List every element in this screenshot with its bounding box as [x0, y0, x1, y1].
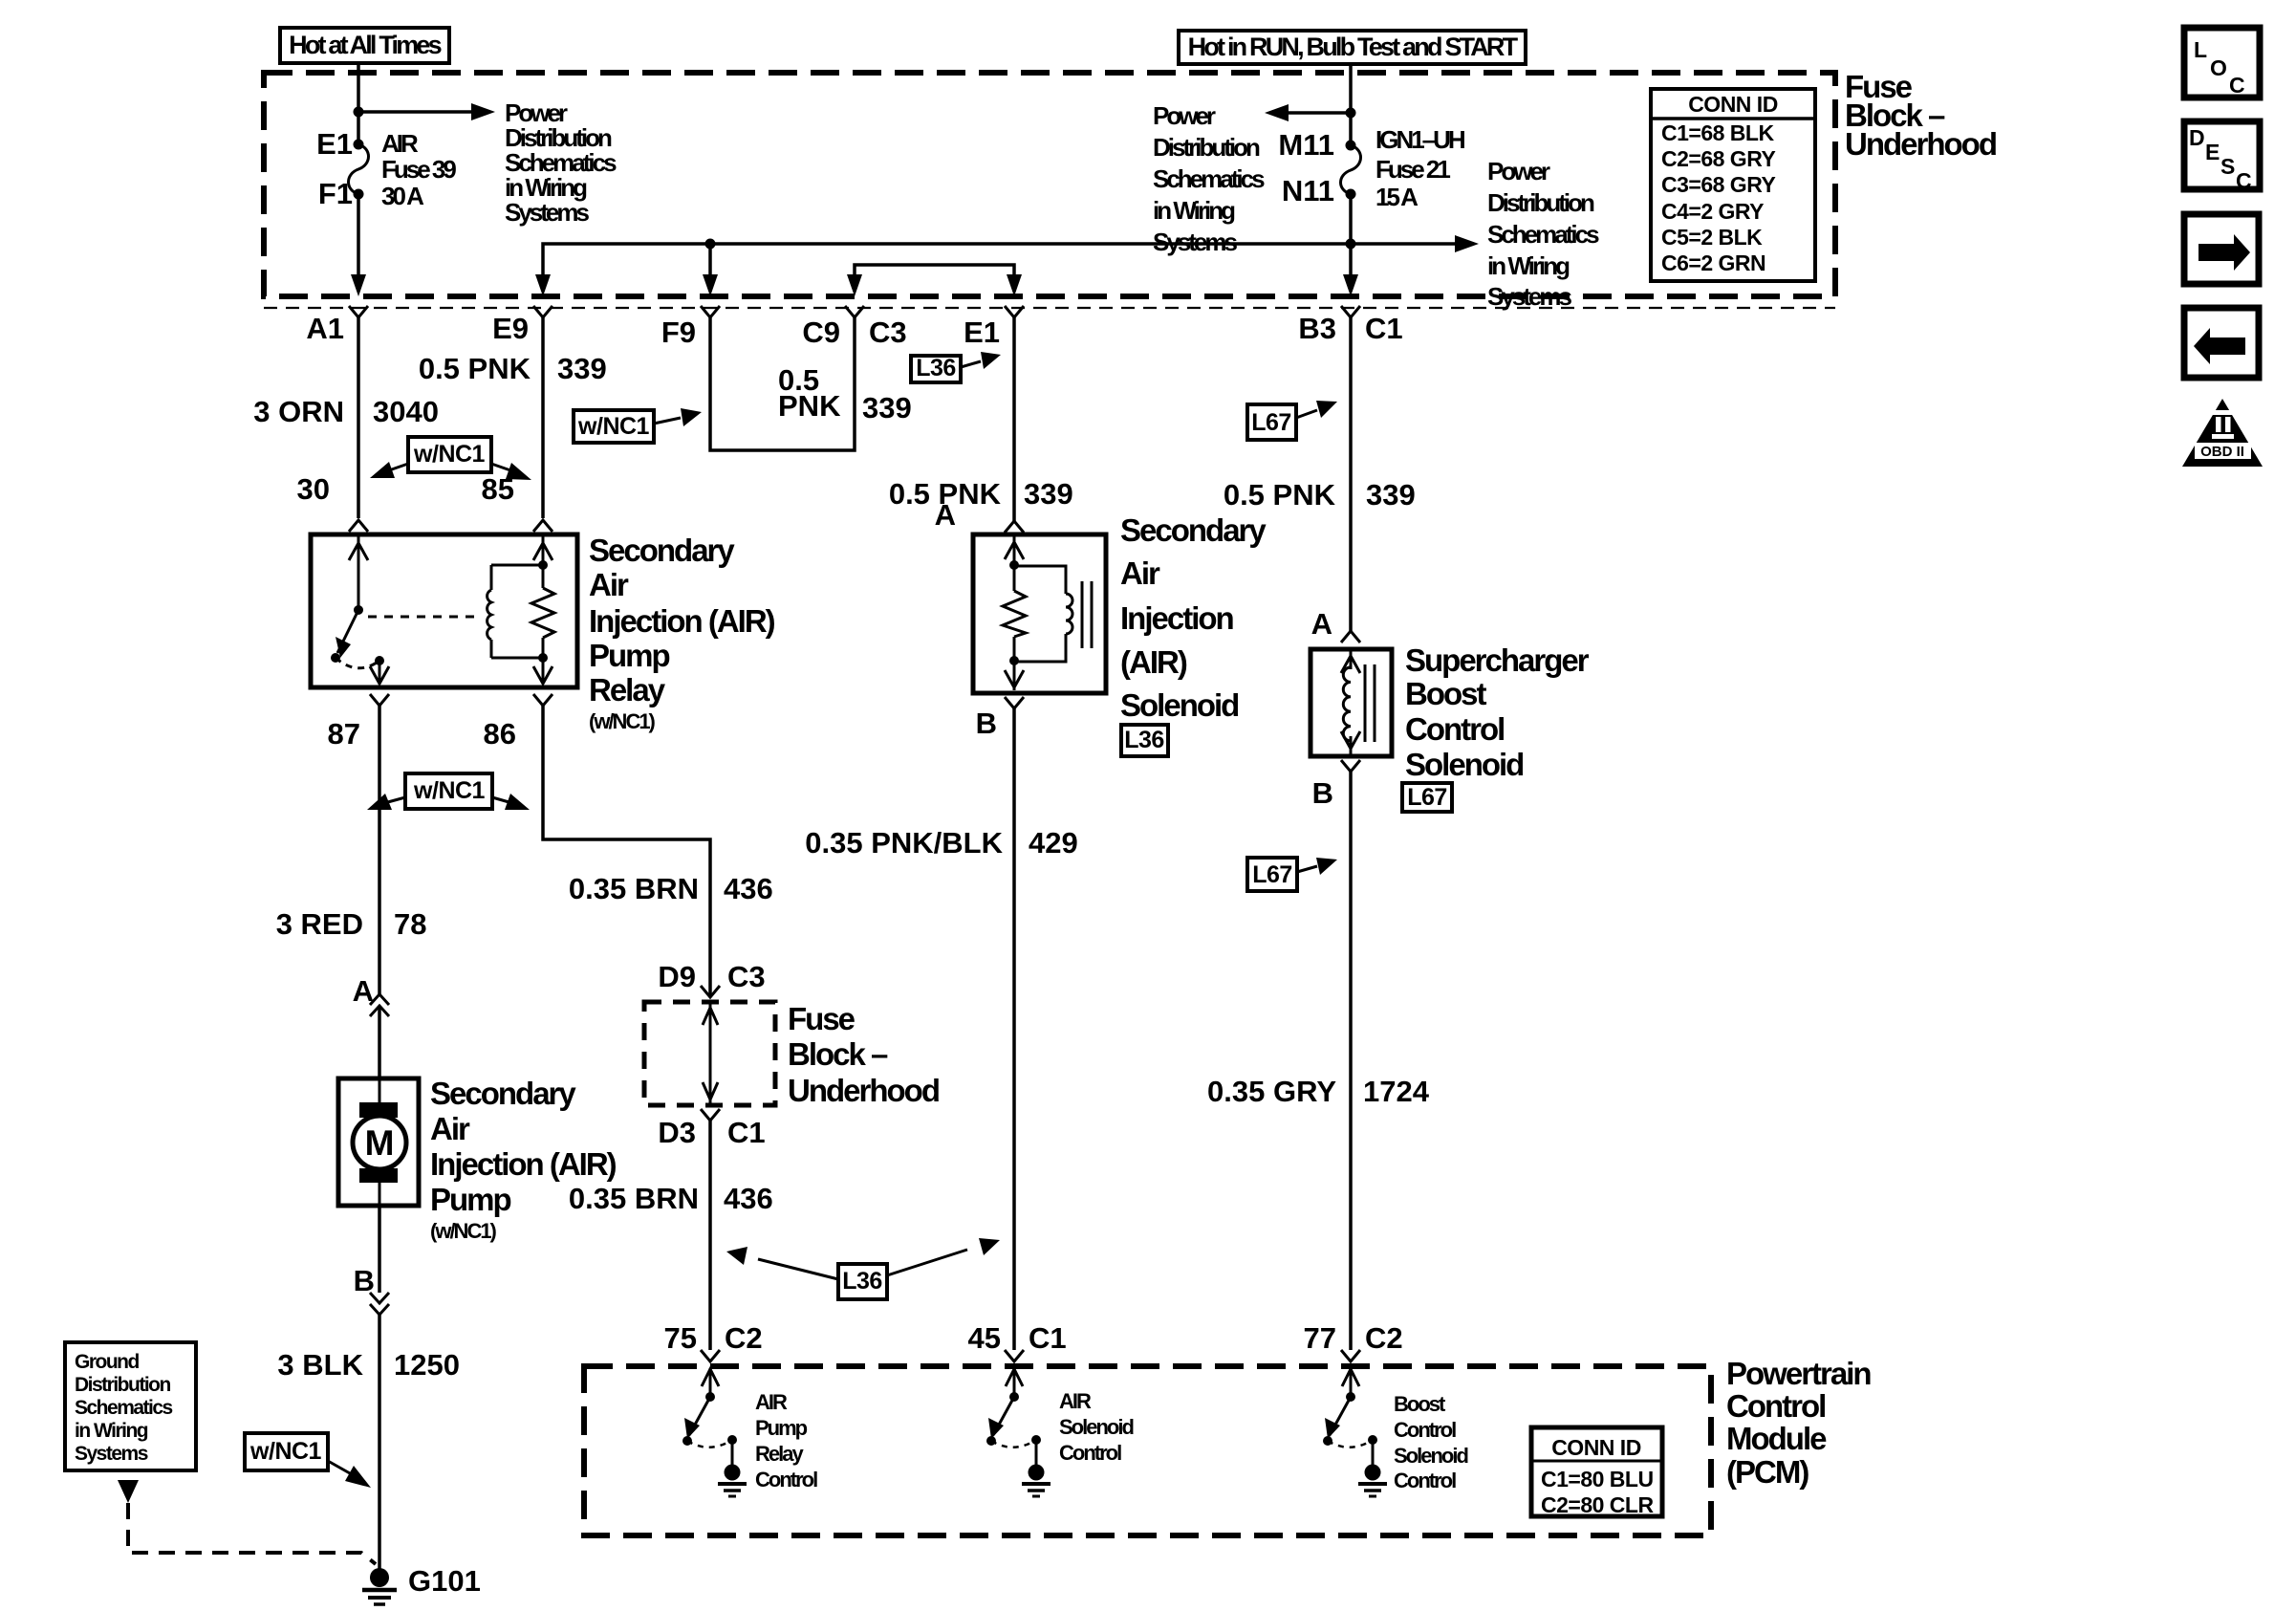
component label: Secondary Air Injection (AIR) Pump: [430, 1076, 617, 1243]
wire E9 down to relay pin 85: [541, 317, 545, 518]
svg-text:Pump: Pump: [589, 638, 670, 673]
svg-text:Underhood: Underhood: [788, 1073, 939, 1108]
tag w/NC1 (near F9): [574, 408, 702, 443]
wire connector A to pump: [378, 1006, 381, 1078]
svg-text:45: 45: [968, 1321, 1001, 1355]
relay: Secondary Air Injection (AIR) Pump Relay: [311, 534, 577, 687]
svg-text:0.35 BRN: 0.35 BRN: [569, 872, 699, 905]
arrowhead at E1 exit: [1007, 274, 1022, 296]
tag L67 (under boost solenoid label): [1402, 783, 1452, 812]
in-line connector B (pump harness): [370, 1293, 389, 1315]
svg-text:C6=2 GRN: C6=2 GRN: [1661, 250, 1765, 275]
svg-text:L36: L36: [916, 355, 956, 381]
svg-text:Distribution: Distribution: [1487, 188, 1594, 217]
fuse block - underhood (small dashed box): [644, 1002, 775, 1105]
wire: arrow to Power Distribution Schematics (middle, pointing left): [1265, 104, 1351, 121]
wire: internal bridge C3 to E1: [855, 265, 1014, 277]
svg-text:Systems: Systems: [505, 198, 589, 227]
svg-text:(w/NC1): (w/NC1): [589, 709, 656, 733]
svg-text:Fuse 39: Fuse 39: [381, 155, 456, 184]
svg-text:C2=68 GRY: C2=68 GRY: [1661, 146, 1775, 171]
svg-text:Secondary: Secondary: [430, 1076, 576, 1111]
svg-text:E1: E1: [316, 127, 353, 161]
svg-text:0.35 GRY: 0.35 GRY: [1207, 1075, 1336, 1108]
svg-text:Module: Module: [1726, 1421, 1827, 1456]
svg-text:C1: C1: [1029, 1321, 1067, 1355]
svg-text:3 BLK: 3 BLK: [277, 1348, 363, 1382]
svg-text:Power: Power: [1487, 157, 1550, 185]
svg-text:C2=80 CLR: C2=80 CLR: [1541, 1492, 1654, 1517]
connector chevron at D3: [701, 1109, 720, 1121]
svg-text:Control: Control: [1394, 1418, 1456, 1442]
svg-text:IGN1–UH: IGN1–UH: [1375, 125, 1465, 154]
svg-text:S: S: [2220, 154, 2235, 179]
connector chevron PCM pin 45: [1005, 1350, 1024, 1361]
tag L36 (lower, with arrows to both wires): [726, 1238, 1000, 1299]
node: F9 tap junction: [705, 239, 716, 250]
tag w/NC1 (near G101): [245, 1433, 371, 1488]
connector chevron relay pin 30: [349, 520, 368, 532]
svg-text:C3: C3: [727, 960, 766, 993]
svg-text:(AIR): (AIR): [1120, 644, 1187, 680]
svg-text:C9: C9: [802, 316, 840, 349]
PCM driver for AIR pump relay control: [682, 1368, 747, 1496]
svg-text:Air: Air: [589, 567, 629, 602]
svg-text:E9: E9: [492, 312, 529, 345]
wire: internal bus from E9 corner to ignition wire: [543, 244, 1351, 277]
svg-text:Boost: Boost: [1394, 1392, 1446, 1416]
svg-text:Injection (AIR): Injection (AIR): [430, 1146, 617, 1182]
label: AIR Pump Relay Control: [755, 1390, 817, 1491]
boost solenoid internals (coil): [1341, 651, 1375, 754]
PCM driver for AIR solenoid control: [986, 1368, 1051, 1496]
svg-text:339: 339: [1024, 477, 1073, 511]
connector chevron PCM pin 77: [1341, 1350, 1360, 1361]
component label: Supercharger Boost Control Solenoid: [1405, 642, 1590, 782]
svg-text:Ground: Ground: [75, 1351, 139, 1373]
label: Fuse Block - Underhood: [1845, 69, 1996, 162]
wire fuse F1 down to A1 exit: [357, 194, 360, 277]
tag L67 (upper, near B3 wire): [1247, 401, 1337, 440]
connector chevron at F9: [701, 306, 720, 317]
svg-text:1250: 1250: [394, 1348, 460, 1382]
svg-text:OBD II: OBD II: [2200, 444, 2244, 460]
svg-text:Underhood: Underhood: [1845, 126, 1996, 162]
svg-text:Control: Control: [1059, 1441, 1121, 1465]
svg-text:O: O: [2210, 55, 2226, 80]
svg-text:0.35 BRN: 0.35 BRN: [569, 1182, 699, 1215]
svg-text:339: 339: [1366, 478, 1416, 512]
wire from Hot in RUN down to fuse M11: [1349, 64, 1353, 145]
svg-text:L67: L67: [1251, 409, 1291, 436]
connector chevron relay pin 85: [533, 520, 552, 532]
icon: OBD II triangle: [2182, 399, 2263, 467]
svg-text:C: C: [2236, 168, 2252, 193]
svg-text:Injection (AIR): Injection (AIR): [589, 603, 775, 639]
svg-text:Power: Power: [1153, 101, 1216, 130]
tag L36 (near E1 wire): [911, 352, 1001, 382]
svg-text:L36: L36: [842, 1268, 882, 1295]
icon: left arrow box: [2184, 308, 2259, 378]
svg-text:D9: D9: [658, 960, 696, 993]
svg-text:C1=80 BLU: C1=80 BLU: [1541, 1467, 1654, 1491]
label: Power Distribution Schematics in Wiring Systems (right): [1487, 157, 1599, 311]
svg-text:PNK: PNK: [778, 389, 841, 423]
label: Power Distribution Schematics in Wiring Systems (middle): [1153, 101, 1265, 256]
AIR solenoid internals (resistor + coil): [1003, 536, 1092, 690]
ground G101: [362, 1568, 397, 1604]
svg-text:L67: L67: [1252, 861, 1292, 888]
svg-text:A1: A1: [306, 312, 344, 345]
relay coil branch (pin 85 to pin 86): [487, 536, 554, 684]
svg-text:Systems: Systems: [1153, 228, 1237, 256]
wire pump to connector B: [378, 1206, 381, 1293]
svg-text:B: B: [976, 707, 997, 740]
svg-text:w/NC1: w/NC1: [413, 777, 486, 804]
svg-text:AIR: AIR: [755, 1390, 788, 1414]
connector chevron at A1: [349, 306, 368, 317]
connector chevron at C9/C3: [845, 306, 864, 317]
wire relay pin 86 to D9 (bends right): [543, 706, 710, 997]
wire: arrow to Power Distribution Schematics (right): [1351, 235, 1479, 252]
connector chevron relay pin 87: [370, 694, 389, 706]
svg-text:N11: N11: [1282, 174, 1334, 207]
svg-text:CONN ID: CONN ID: [1551, 1435, 1641, 1460]
svg-text:339: 339: [862, 391, 912, 425]
svg-text:Control: Control: [1726, 1388, 1825, 1424]
arrowhead at B3 exit: [1343, 274, 1358, 296]
svg-text:Relay: Relay: [755, 1442, 804, 1466]
svg-text:D: D: [2189, 125, 2205, 150]
svg-text:30 A: 30 A: [381, 182, 424, 210]
CONN ID table (PCM): [1531, 1427, 1662, 1517]
svg-text:1724: 1724: [1363, 1075, 1430, 1108]
svg-text:w/NC1: w/NC1: [413, 441, 486, 468]
node: battery feed junction: [354, 107, 364, 118]
CONN ID table (fuse block): [1651, 89, 1815, 281]
svg-text:in Wiring: in Wiring: [1153, 196, 1235, 225]
wire label 0.5 PNK (F9-C9 loop): [778, 363, 841, 423]
svg-text:C: C: [2229, 73, 2244, 98]
arrowhead at F9 exit: [703, 274, 718, 296]
label: Powertrain Control Module (PCM): [1726, 1356, 1871, 1490]
svg-text:78: 78: [394, 907, 426, 941]
svg-text:Schematics: Schematics: [75, 1397, 173, 1419]
svg-text:0.35 PNK/BLK: 0.35 PNK/BLK: [805, 826, 1003, 860]
connector chevron at B3/C1: [1341, 306, 1360, 317]
svg-text:B3: B3: [1298, 312, 1336, 345]
svg-text:A: A: [935, 498, 956, 532]
svg-text:0.5 PNK: 0.5 PNK: [419, 352, 531, 385]
wire D3 down to PCM pin 75: [708, 1121, 712, 1350]
wire connector B down to G101: [378, 1315, 381, 1573]
svg-text:F9: F9: [661, 316, 696, 349]
relay switch (pin 30 to pin 87): [331, 536, 389, 684]
svg-text:in Wiring: in Wiring: [1487, 251, 1570, 280]
PCM driver for boost control solenoid control: [1323, 1368, 1387, 1496]
svg-text:Solenoid: Solenoid: [1059, 1415, 1133, 1439]
connector chevron at E1: [1005, 306, 1024, 317]
svg-text:339: 339: [557, 352, 607, 385]
svg-text:77: 77: [1304, 1321, 1336, 1355]
fuse AIR Fuse 39 30 A (pins E1/F1): [349, 140, 369, 200]
svg-text:(PCM): (PCM): [1726, 1454, 1809, 1490]
node: ignition feed junction: [1346, 108, 1356, 119]
svg-text:0.5 PNK: 0.5 PNK: [1224, 478, 1336, 512]
wire B3 down to boost solenoid pin A: [1349, 317, 1353, 631]
svg-text:Distribution: Distribution: [75, 1374, 170, 1396]
wire AIR solenoid pin B down to PCM pin 45: [1012, 708, 1016, 1350]
svg-text:B: B: [354, 1264, 375, 1297]
tag L67 (lower, near boost wire): [1247, 858, 1337, 891]
wire fuse N11 down to B3 exit: [1349, 194, 1353, 277]
svg-text:Pump: Pump: [755, 1416, 808, 1440]
svg-text:429: 429: [1029, 826, 1078, 860]
svg-text:AIR: AIR: [1059, 1389, 1092, 1413]
svg-text:Hot in RUN, Bulb Test and STAR: Hot in RUN, Bulb Test and START: [1188, 33, 1519, 61]
connector chevron AIR solenoid pin A: [1005, 521, 1024, 533]
svg-text:A: A: [1311, 607, 1332, 641]
svg-text:Boost: Boost: [1405, 676, 1487, 711]
arrowhead below ground distribution box: [118, 1480, 139, 1503]
svg-text:in Wiring: in Wiring: [75, 1420, 148, 1442]
svg-text:Solenoid: Solenoid: [1394, 1444, 1467, 1468]
svg-text:Hot at All Times: Hot at All Times: [289, 31, 442, 59]
relay mechanical link (dashed): [368, 616, 480, 619]
icon: LOC box: [2184, 28, 2260, 98]
svg-text:30: 30: [297, 472, 330, 506]
arrowhead at A1 exit: [351, 274, 366, 296]
svg-text:A: A: [353, 974, 374, 1008]
svg-text:AIR: AIR: [381, 129, 419, 158]
svg-text:Pump: Pump: [430, 1182, 511, 1217]
svg-text:CONN ID: CONN ID: [1688, 92, 1778, 117]
svg-text:E1: E1: [964, 316, 1000, 349]
svg-text:(w/NC1): (w/NC1): [430, 1219, 497, 1243]
svg-text:Injection: Injection: [1120, 600, 1234, 636]
svg-text:C2: C2: [725, 1321, 763, 1355]
svg-text:B: B: [1312, 776, 1333, 810]
svg-text:w/NC1: w/NC1: [249, 1438, 322, 1465]
svg-text:87: 87: [328, 717, 360, 751]
svg-text:C1=68 BLK: C1=68 BLK: [1661, 120, 1774, 145]
component label: Secondary Air Injection (AIR) Solenoid: [1120, 512, 1267, 723]
arrowhead at C3 exit: [847, 274, 862, 296]
wire A1 down to relay pin 30: [357, 317, 360, 518]
svg-text:Control: Control: [1405, 711, 1504, 747]
svg-text:3 RED: 3 RED: [276, 907, 363, 941]
svg-text:Systems: Systems: [1487, 282, 1571, 311]
svg-text:Fuse 21: Fuse 21: [1375, 155, 1450, 184]
fuse IGN1-UH Fuse 21 15 A (pins M11/N11): [1341, 141, 1361, 200]
svg-text:L: L: [2194, 37, 2207, 62]
svg-text:D3: D3: [658, 1116, 696, 1149]
connector chevron PCM pin 75: [701, 1350, 720, 1361]
svg-text:M11: M11: [1278, 128, 1334, 162]
svg-text:Secondary: Secondary: [1120, 512, 1267, 548]
connector chevron relay pin 86: [533, 694, 552, 706]
svg-text:Fuse: Fuse: [788, 1001, 856, 1036]
wire F9 loop to C9: [710, 317, 855, 450]
label: Boost Control Solenoid Control: [1394, 1392, 1467, 1492]
svg-text:Relay: Relay: [589, 672, 666, 708]
connector chevron AIR solenoid pin B: [1005, 697, 1024, 708]
header box "Hot at All Times": [280, 28, 449, 63]
svg-text:C3: C3: [869, 316, 907, 349]
component label: Secondary Air Injection (AIR) Pump Relay: [589, 533, 775, 733]
connector chevron boost solenoid pin A: [1341, 631, 1360, 642]
solenoid: Supercharger Boost Control Solenoid: [1310, 649, 1392, 756]
svg-text:Supercharger: Supercharger: [1405, 642, 1590, 678]
svg-text:E: E: [2205, 140, 2220, 164]
svg-text:C1: C1: [727, 1116, 766, 1149]
svg-text:C4=2 GRY: C4=2 GRY: [1661, 199, 1764, 224]
svg-text:86: 86: [484, 717, 516, 751]
svg-text:Schematics: Schematics: [1487, 220, 1599, 249]
svg-text:L36: L36: [1124, 727, 1164, 753]
svg-text:L67: L67: [1407, 784, 1447, 811]
svg-text:Block –: Block –: [788, 1036, 888, 1072]
svg-text:F1: F1: [318, 177, 353, 210]
svg-text:Powertrain: Powertrain: [1726, 1356, 1871, 1391]
dashed ground distribution route: [128, 1503, 376, 1564]
wire from Hot at All Times down to fuse E1: [357, 63, 360, 144]
svg-text:C3=68 GRY: C3=68 GRY: [1661, 172, 1775, 197]
svg-text:Distribution: Distribution: [1153, 133, 1260, 162]
svg-text:Control: Control: [755, 1468, 817, 1491]
in-line connector A (pump harness): [370, 994, 389, 1016]
icon: right arrow box: [2184, 214, 2259, 284]
svg-text:C1: C1: [1365, 312, 1403, 345]
svg-text:3 ORN: 3 ORN: [253, 395, 344, 428]
connector chevron at E9: [533, 306, 552, 317]
svg-text:C5=2 BLK: C5=2 BLK: [1661, 225, 1763, 250]
connector chevron at D9: [701, 986, 720, 997]
icon: DESC box: [2184, 121, 2260, 193]
label box: Ground Distribution Schematics in Wiring Systems: [65, 1342, 196, 1470]
svg-text:75: 75: [664, 1321, 697, 1355]
label: Power Distribution Schematics in Wiring Systems (left): [505, 98, 617, 227]
wire boost solenoid pin B down to PCM pin 77: [1349, 772, 1353, 1350]
label: AIR Solenoid Control: [1059, 1389, 1133, 1465]
motor: Secondary Air Injection (AIR) Pump: [338, 1078, 419, 1206]
header box "Hot in RUN, Bulb Test and START": [1179, 31, 1526, 64]
svg-text:436: 436: [724, 1182, 773, 1215]
svg-text:Solenoid: Solenoid: [1120, 687, 1238, 723]
PCM: Powertrain Control Module (dashed outline): [584, 1366, 1711, 1535]
wire: F9 drop: [708, 244, 712, 277]
wire E1 down to AIR solenoid pin A: [1012, 317, 1016, 522]
svg-text:Air: Air: [1120, 555, 1160, 591]
svg-text:3040: 3040: [373, 395, 439, 428]
node: bus junction on ignition wire: [1346, 239, 1356, 250]
svg-text:15 A: 15 A: [1375, 183, 1419, 211]
connector chevron boost solenoid pin B: [1341, 760, 1360, 772]
fuse value label IGN1-UH Fuse 21 15 A: [1375, 125, 1465, 211]
wire: arrow to Power Distribution Schematics (left): [358, 103, 495, 120]
tag w/NC1 (below relay): [367, 773, 530, 810]
tag L36 (under AIR solenoid label): [1121, 725, 1168, 756]
svg-text:436: 436: [724, 872, 773, 905]
svg-text:C2: C2: [1365, 1321, 1403, 1355]
svg-text:G101: G101: [408, 1564, 481, 1598]
label: Fuse Block - Underhood (small): [788, 1001, 939, 1108]
svg-text:Solenoid: Solenoid: [1405, 747, 1523, 782]
svg-text:M: M: [365, 1123, 395, 1163]
fuse block - underhood (dashed outline): [264, 73, 1835, 296]
svg-text:Schematics: Schematics: [1153, 164, 1265, 193]
svg-text:Control: Control: [1394, 1469, 1456, 1492]
arrowhead at E9 exit: [535, 274, 551, 296]
svg-text:85: 85: [482, 472, 514, 506]
in-line connector boundary (thin dashed line): [264, 307, 1835, 309]
wire relay pin 87 down to pump connector A: [378, 706, 381, 994]
solenoid: Secondary Air Injection (AIR) Solenoid: [973, 534, 1106, 693]
svg-text:w/NC1: w/NC1: [577, 413, 650, 440]
svg-text:Air: Air: [430, 1111, 470, 1146]
svg-text:Secondary: Secondary: [589, 533, 735, 568]
svg-text:Systems: Systems: [75, 1443, 148, 1465]
fuse value label AIR Fuse 39 30 A: [381, 129, 456, 210]
tag w/NC1 (between A1 and E9): [370, 437, 531, 480]
